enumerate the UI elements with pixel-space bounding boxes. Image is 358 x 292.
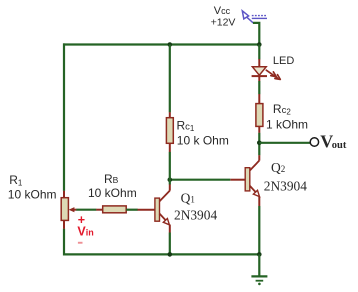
wire bottom rail (63, 253, 259, 255)
wire Q2 emitter down (258, 206, 260, 256)
junction dot bottom mid (168, 252, 173, 257)
LED cathode pin (258, 77, 260, 81)
resistor RC2 (256, 104, 263, 127)
svg-text:Vin: Vin (77, 225, 93, 239)
R1 bottom pin (63, 220, 65, 229)
terminal Vout (310, 138, 318, 146)
Q2 emitter arrow (253, 190, 259, 196)
resistor RB (103, 206, 127, 213)
Q1 emitter arrow (163, 219, 169, 225)
transistor Q1 base bar (155, 198, 160, 221)
svg-text:10 kOhm: 10 kOhm (88, 186, 137, 200)
node arrow into R1 (69, 207, 75, 212)
ground (251, 276, 267, 285)
svg-text:out: out (332, 140, 347, 151)
wire left rail upper (63, 43, 65, 191)
junction dot Q1 collector node (168, 177, 173, 182)
wire Vout (259, 142, 310, 144)
LED anode pin (258, 59, 260, 67)
R1 top pin (63, 191, 65, 198)
svg-text:10 kOhm: 10 kOhm (8, 188, 57, 202)
svg-text:1 kOhm: 1 kOhm (266, 118, 308, 132)
wire Q1 emitter down (169, 233, 171, 256)
RC1 top pin (169, 112, 171, 118)
wire RC1 to Q1 collector node (169, 152, 171, 180)
Q1 emitter diagonal (159, 214, 167, 223)
svg-text:RB: RB (104, 172, 119, 186)
power symbol VCC (blue flag) (242, 11, 267, 23)
RC1 bottom pin (169, 143, 171, 152)
wire RC2 to Q2 collector node (258, 133, 260, 156)
junction dot Vout node (257, 141, 262, 146)
svg-text:2N3904: 2N3904 (174, 208, 217, 223)
svg-text:+12V: +12V (211, 17, 236, 29)
LED light arrows (266, 70, 280, 79)
base wire pin at R1 (73, 209, 76, 211)
wire LED to RC2 (258, 81, 260, 94)
svg-text:2N3904: 2N3904 (264, 178, 307, 193)
svg-text:Vcc: Vcc (214, 5, 231, 17)
wire RC1 column upper (169, 45, 171, 113)
wire VCC stub (253, 23, 259, 45)
Q2 emitter diagonal (250, 186, 258, 195)
RB left pin (96, 209, 103, 211)
junction dot top mid (168, 42, 173, 47)
transistor Q2 base bar (245, 168, 250, 191)
wire Q1 collector node down (169, 180, 171, 185)
Q1 collector diagonal (159, 191, 170, 202)
RC2 bottom pin (258, 126, 260, 132)
resistor RC1 (166, 118, 173, 144)
LED D1 (252, 67, 266, 75)
wire to ground (258, 254, 260, 275)
Q1 collector pin (169, 184, 171, 190)
wire left rail lower (63, 229, 65, 256)
Q1 emitter pin (169, 225, 171, 233)
wire LED column upper (258, 45, 260, 60)
Q2 emitter pin (258, 197, 260, 207)
wire Q1 collector to Q2 base (170, 179, 231, 181)
Q1 base pin (138, 209, 155, 211)
svg-text:10 k Ohm: 10 k Ohm (177, 134, 229, 148)
Q2 collector diagonal (250, 161, 260, 171)
wire R1 to RB (76, 209, 96, 211)
junction dot bottom right (257, 252, 262, 257)
wire RB to Q1 base (126, 209, 138, 211)
junction dot top right (257, 42, 262, 47)
Q2 collector pin (258, 155, 260, 160)
svg-text:LED: LED (273, 55, 294, 67)
label - (Vin minus) (78, 242, 83, 244)
wire top rail (63, 43, 259, 45)
resistor R1 (61, 198, 68, 221)
RC2 top pin (258, 94, 260, 104)
Q2 base pin (230, 179, 245, 181)
